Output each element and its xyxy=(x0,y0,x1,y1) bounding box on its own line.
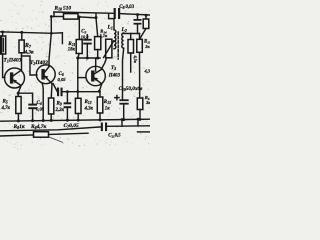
svg-text:R81к: R81к xyxy=(13,124,25,130)
svg-text:18к: 18к xyxy=(68,47,76,52)
svg-text:С80,03: С80,03 xyxy=(119,5,134,10)
svg-text:П403: П403 xyxy=(108,74,121,79)
svg-text:R64,7к: R64,7к xyxy=(30,124,47,130)
svg-text:2,2к: 2,2к xyxy=(55,108,65,113)
svg-text:R10510: R10510 xyxy=(54,6,72,12)
svg-text:1к: 1к xyxy=(105,107,110,112)
svg-text:4,3к: 4,3к xyxy=(24,49,34,55)
svg-text:4,7к: 4,7к xyxy=(1,106,11,111)
svg-text:3к: 3к xyxy=(144,44,150,49)
svg-text:3к: 3к xyxy=(145,100,150,105)
svg-text:4,5в: 4,5в xyxy=(133,55,138,63)
svg-text:R7: R7 xyxy=(24,43,32,49)
svg-text:4,3к: 4,3к xyxy=(84,107,94,112)
svg-text:10,0: 10,0 xyxy=(81,34,89,39)
svg-text:Т1П403: Т1П403 xyxy=(4,58,22,64)
svg-text:4,3: 4,3 xyxy=(144,69,151,74)
svg-text:0,05: 0,05 xyxy=(36,107,45,112)
svg-text:С70,05: С70,05 xyxy=(64,123,80,129)
svg-text:С110,5: С110,5 xyxy=(108,133,121,138)
svg-text:Т2П403: Т2П403 xyxy=(30,60,48,66)
svg-text:0,05: 0,05 xyxy=(58,77,67,82)
svg-text:5,1к: 5,1к xyxy=(100,33,108,38)
